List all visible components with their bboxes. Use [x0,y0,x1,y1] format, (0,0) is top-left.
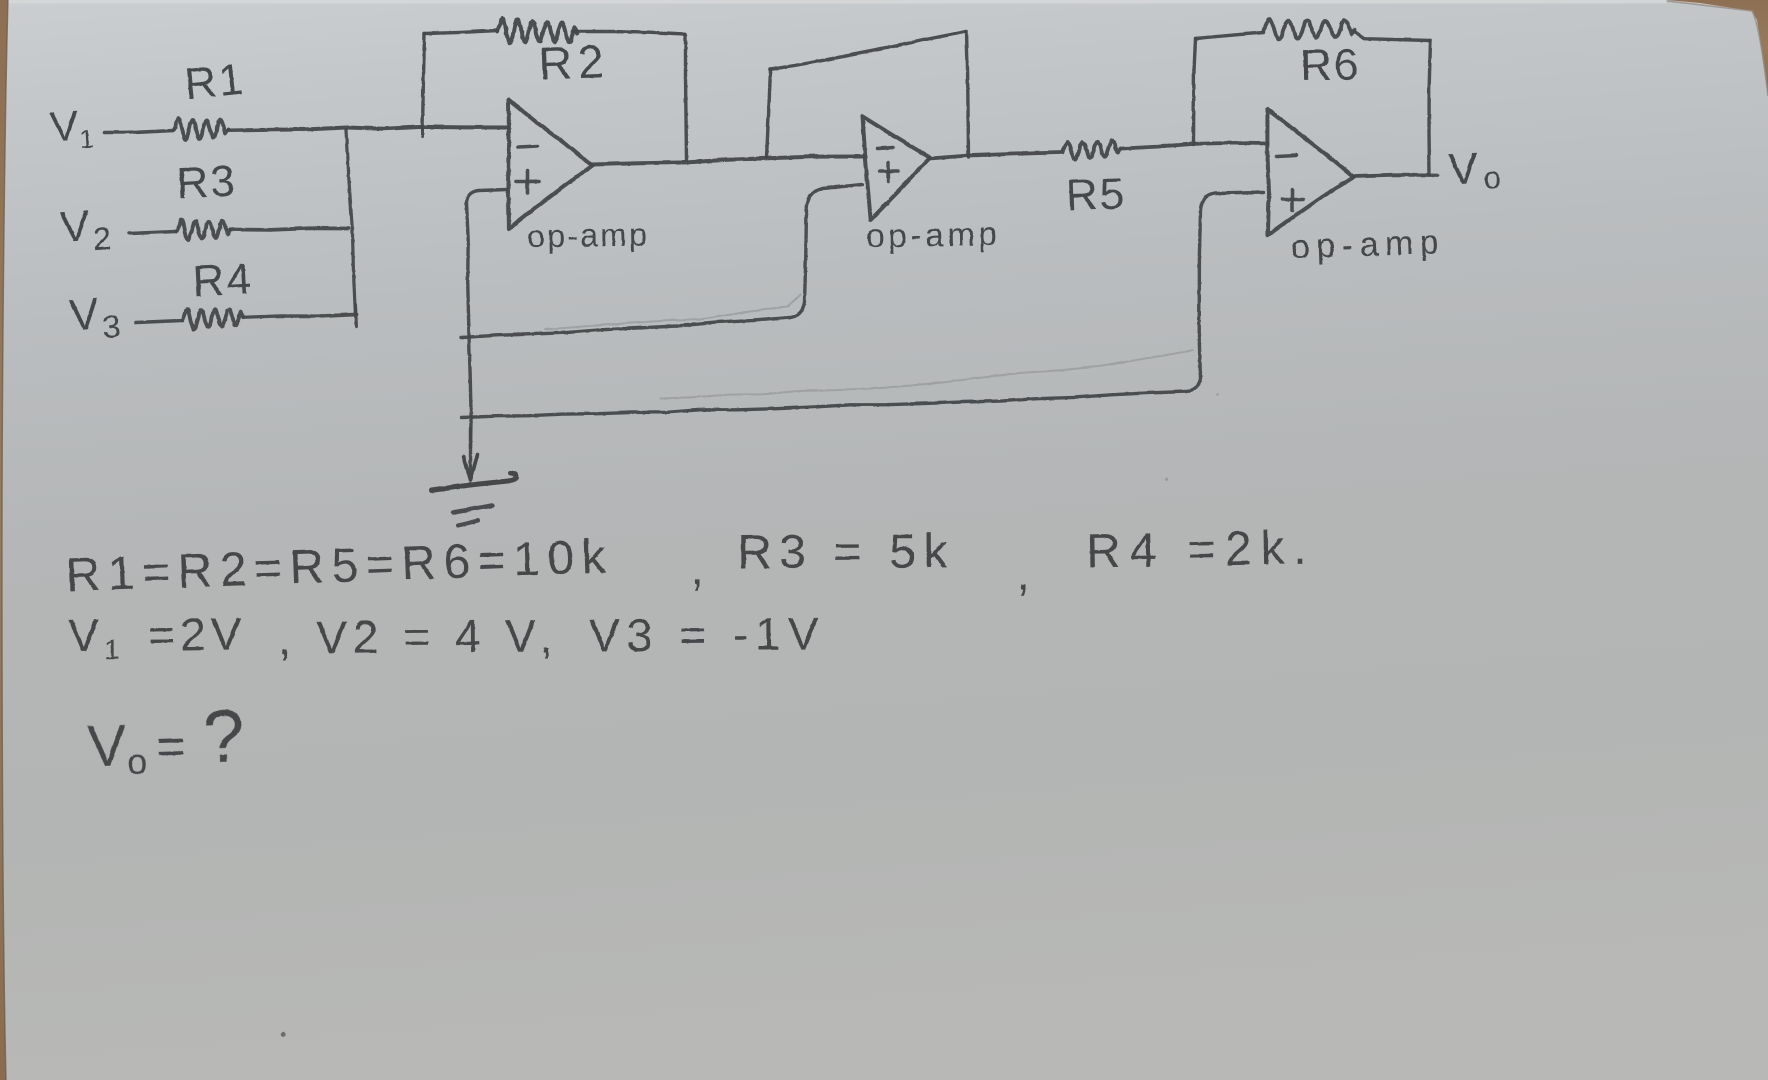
svg-text:,: , [278,612,291,664]
wire R2 feedback left leg [422,33,424,136]
resistor R5 [1062,140,1120,159]
value text R1=R2=R5=R6=10k [65,530,614,602]
op-amp U3 inverting pin mark [1276,155,1296,156]
svg-text:R3: R3 [175,156,236,208]
value text comma 3 [278,612,291,664]
wire U2 feedback top [770,31,966,69]
wire summing bus vertical [346,129,355,316]
resistor R6 [1263,19,1354,40]
op-amp U2 [862,116,929,219]
label R5 [1065,169,1125,220]
svg-text:,: , [540,610,553,662]
svg-text:,: , [1016,547,1029,600]
ground bar 2 [453,505,492,512]
label R6 [1299,40,1360,90]
op-amp U3 [1267,109,1353,235]
wire V2 lead-in [129,231,175,233]
op-amp U2 non-inverting pin mark [879,162,898,181]
svg-text:R4 =2k.: R4 =2k. [1085,521,1316,578]
wire V1 lead-in [104,130,173,132]
op-amp U3 non-inverting pin mark [1282,189,1303,210]
wire V2 to summing bus [230,228,348,230]
resistor R3 [176,220,230,240]
node V1 [48,100,94,156]
node Vo [1447,142,1501,197]
svg-text:R5: R5 [1065,169,1125,220]
svg-text:V1 =2V: V1 =2V [68,607,247,665]
resistor R2 [497,18,577,43]
svg-text:R1: R1 [182,54,245,109]
wire R2 feedback top left [424,30,497,33]
junction tick V3 bus end [355,304,356,326]
wire R2 feedback top right [574,31,685,34]
value text V1=2V [68,607,247,665]
value text V2=4V [316,609,542,663]
node V2 [58,200,112,259]
wire V1 to op-amp U1 inverting input [228,126,507,130]
ground bar 3 [458,520,478,525]
node V3 [67,288,121,347]
value text R3=5k [737,525,954,579]
svg-text:op-amp: op-amp [865,215,1000,254]
op-amp U1 [508,99,592,229]
op-amp U1 inverting pin mark [518,146,537,147]
label op-amp U3 [1290,223,1446,266]
value text comma 1 [690,542,703,595]
wire U1 non-inverting input down [466,189,507,447]
label R1 [182,54,245,109]
svg-text:R2: R2 [538,35,611,89]
svg-text:R6: R6 [1299,40,1360,90]
op-amp U2 inverting pin mark [877,147,893,148]
wire R5 to U3 inverting input [1122,143,1267,149]
wire R6 feedback top left [1195,32,1263,38]
ground bar 1 [431,473,516,491]
wire U2 feedback left leg [766,69,770,157]
wire R6 feedback right leg [1429,40,1431,175]
label op-amp U2 [865,215,1000,254]
resistor R4 [182,308,243,329]
label R2 [538,35,611,89]
wire V3 lead-in [136,320,181,322]
wire U2 output to R5 [929,152,1060,158]
label R4 [191,254,252,306]
op-amp U1 non-inverting pin mark [516,170,539,193]
wire R2 feedback right leg [685,34,686,160]
value text R4=2k [1085,521,1316,578]
label R3 [175,156,236,208]
label op-amp U1 [526,216,648,254]
value text comma 4 [540,610,553,662]
wire U3 output [1353,175,1437,176]
ground arrow [463,428,477,480]
svg-text:R4: R4 [191,254,252,306]
wire U3 non-inverting input to ground bus [461,192,1263,417]
svg-text:R3 = 5k: R3 = 5k [737,525,954,579]
wire U2 non-inverting input to ground bus [461,184,862,337]
svg-text:,: , [690,542,703,595]
svg-text:op-amp: op-amp [526,216,648,254]
value text V3=-1V [589,607,826,661]
svg-text:op-amp: op-amp [1290,223,1446,266]
value text comma 2 [1016,547,1029,600]
question Vo = ? [86,694,246,783]
faint smudge line 2 [660,350,1192,398]
svg-text:V2 = 4 V: V2 = 4 V [316,609,542,663]
faint smudge line 1 [545,294,800,329]
svg-text:V3 = -1V: V3 = -1V [589,607,826,661]
wire V3 to summing bus [243,314,356,317]
wire U2 feedback right leg [966,31,968,157]
wire U1 output to U2 [591,156,863,164]
wire R6 feedback left leg [1193,38,1195,144]
resistor R1 [173,118,228,140]
wire R6 feedback top right [1354,31,1430,40]
